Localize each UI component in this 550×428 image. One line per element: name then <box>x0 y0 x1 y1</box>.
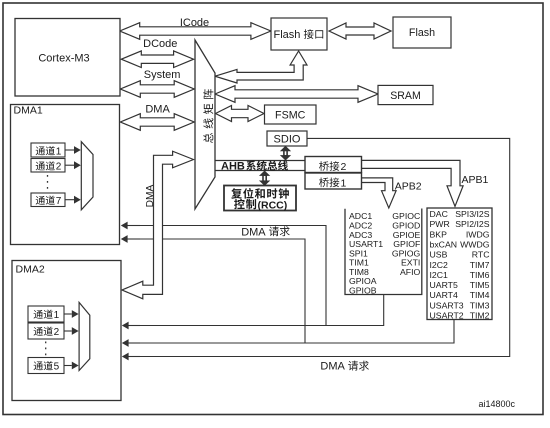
svg-text:DMA: DMA <box>241 226 266 238</box>
svg-text:SPI3/I2S: SPI3/I2S <box>455 209 489 219</box>
svg-text:DMA: DMA <box>320 361 345 373</box>
svg-text:SPI2/I2S: SPI2/I2S <box>455 219 489 229</box>
svg-text:bxCAN: bxCAN <box>430 239 458 249</box>
svg-text:I2C1: I2C1 <box>430 270 449 280</box>
svg-text:7: 7 <box>56 196 62 207</box>
svg-text:Flash: Flash <box>409 27 435 39</box>
svg-text:TIM2: TIM2 <box>470 311 490 321</box>
svg-text:DCode: DCode <box>143 38 177 50</box>
svg-text:USART2: USART2 <box>430 311 464 321</box>
svg-text:APB2: APB2 <box>395 180 422 192</box>
svg-text:DMA: DMA <box>145 104 170 116</box>
svg-text:FSMC: FSMC <box>275 110 306 122</box>
svg-text:Cortex-M3: Cortex-M3 <box>38 53 89 65</box>
svg-text:1: 1 <box>341 177 347 189</box>
svg-text:TIM4: TIM4 <box>470 290 490 300</box>
svg-text:USART3: USART3 <box>430 300 464 310</box>
svg-text:2: 2 <box>56 162 62 173</box>
svg-text:AFIO: AFIO <box>400 267 421 277</box>
svg-text:PWR: PWR <box>430 219 450 229</box>
svg-text:SDIO: SDIO <box>274 133 301 145</box>
svg-text:2: 2 <box>341 161 347 173</box>
svg-text:USB: USB <box>430 250 448 260</box>
svg-text:TIM5: TIM5 <box>470 280 490 290</box>
svg-text:ai14800c: ai14800c <box>479 399 516 409</box>
svg-text:1: 1 <box>54 310 60 321</box>
svg-text:5: 5 <box>54 362 60 373</box>
svg-text:TIM3: TIM3 <box>470 300 490 310</box>
svg-text:DAC: DAC <box>430 209 448 219</box>
svg-text:TIM6: TIM6 <box>470 270 490 280</box>
svg-text:BKP: BKP <box>430 229 448 239</box>
svg-text:(RCC): (RCC) <box>258 199 288 211</box>
svg-text:I2C2: I2C2 <box>430 260 449 270</box>
svg-text:System: System <box>144 69 181 81</box>
svg-text:Flash: Flash <box>274 29 301 41</box>
svg-text:AHB: AHB <box>221 161 245 173</box>
svg-text:SRAM: SRAM <box>390 90 421 102</box>
svg-text:DMA1: DMA1 <box>14 105 43 117</box>
svg-text:WWDG: WWDG <box>460 239 490 249</box>
svg-text:DMA: DMA <box>145 184 156 207</box>
svg-text:RTC: RTC <box>472 250 490 260</box>
svg-text:GPIOB: GPIOB <box>349 285 377 295</box>
svg-text:2: 2 <box>54 327 60 338</box>
svg-text:TIM7: TIM7 <box>470 260 490 270</box>
svg-text:1: 1 <box>56 147 62 158</box>
svg-text:ICode: ICode <box>180 17 209 29</box>
svg-text:IWDG: IWDG <box>466 229 490 239</box>
svg-text:DMA2: DMA2 <box>16 264 45 276</box>
svg-text:UART5: UART5 <box>430 280 458 290</box>
svg-text:UART4: UART4 <box>430 290 458 300</box>
svg-text:APB1: APB1 <box>462 174 489 186</box>
